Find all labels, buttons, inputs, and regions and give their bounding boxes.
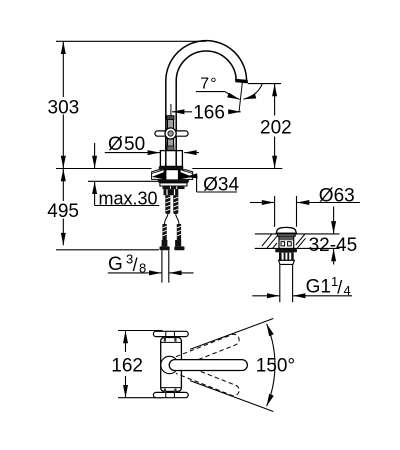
svg-text:166: 166 — [193, 102, 225, 123]
svg-text:Ø63: Ø63 — [319, 185, 355, 206]
svg-text:4: 4 — [344, 283, 351, 298]
svg-text:495: 495 — [47, 201, 79, 222]
svg-text:303: 303 — [48, 97, 80, 118]
svg-text:Ø: Ø — [108, 134, 123, 155]
svg-text:/: / — [133, 255, 138, 275]
svg-text:Ø34: Ø34 — [203, 175, 239, 196]
svg-text:50: 50 — [124, 134, 145, 155]
svg-text:/: / — [337, 278, 342, 298]
svg-text:162: 162 — [111, 356, 143, 377]
svg-text:32-45: 32-45 — [309, 235, 358, 256]
svg-text:G: G — [108, 254, 123, 275]
svg-text:G1: G1 — [306, 277, 331, 298]
svg-text:max.30: max.30 — [99, 189, 158, 209]
svg-text:150°: 150° — [256, 355, 295, 376]
svg-text:202: 202 — [260, 117, 292, 138]
svg-text:7°: 7° — [200, 75, 217, 92]
